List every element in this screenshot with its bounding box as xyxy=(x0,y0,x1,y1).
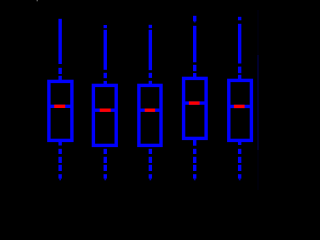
lower whisker 5 dashes xyxy=(238,149,241,171)
lower whisker 4 stub xyxy=(193,138,196,145)
median 1 (red segment) xyxy=(54,105,65,108)
right spine (faint blue line) xyxy=(257,10,258,190)
lower whisker 2 end taper xyxy=(104,174,107,180)
axis tick (faint gray, top edge) xyxy=(37,0,38,1)
lower whisker 3 dashes xyxy=(149,149,152,171)
box 2 xyxy=(93,85,116,145)
median 2 (blue base line) xyxy=(93,108,116,111)
median 5 (red segment) xyxy=(234,105,245,108)
lower whisker 5 stub xyxy=(238,140,241,145)
upper whisker 2 dashes xyxy=(104,73,107,86)
upper whisker 3 top dash xyxy=(149,25,152,28)
median 4 (blue base line) xyxy=(184,101,207,104)
lower whisker 2 dashes xyxy=(104,149,107,171)
lower whisker 3 end taper xyxy=(149,174,152,180)
median 3 (red segment) xyxy=(145,108,155,111)
upper whisker 1 (solid part) xyxy=(58,19,61,64)
upper whisker 1 dashes xyxy=(58,68,61,82)
upper whisker 5 top dash xyxy=(238,17,241,21)
upper whisker 5 dashes xyxy=(238,67,241,81)
box 1 xyxy=(49,81,72,140)
upper whisker 4 (solid part) xyxy=(193,26,196,63)
upper whisker 4 dashes xyxy=(193,65,196,79)
upper whisker 3 (solid part) xyxy=(149,30,152,70)
lower whisker 1 dashes xyxy=(58,149,61,171)
median 4 (red segment) xyxy=(189,101,200,104)
box 3 xyxy=(139,85,161,145)
median 1 (blue base line) xyxy=(49,105,72,108)
box 5 xyxy=(229,80,252,140)
upper whisker 4 top dash (tapered end) xyxy=(193,16,196,21)
box 4 xyxy=(184,78,207,138)
lower whisker 1 stub xyxy=(58,140,61,145)
median 3 (blue base line) xyxy=(139,108,161,111)
upper whisker 5 (solid part) xyxy=(238,24,241,64)
upper whisker 2 (solid part) xyxy=(104,30,107,70)
lower whisker 4 end taper xyxy=(193,174,196,180)
upper whisker 2 top dash xyxy=(104,25,107,28)
lower whisker 1 end taper xyxy=(58,174,61,180)
lower whisker 5 end taper xyxy=(238,174,241,180)
median 5 (blue base line) xyxy=(229,105,252,108)
lower whisker 4 dashes xyxy=(193,149,196,171)
upper whisker 3 dashes xyxy=(149,73,152,86)
median 2 (red segment) xyxy=(100,108,111,111)
